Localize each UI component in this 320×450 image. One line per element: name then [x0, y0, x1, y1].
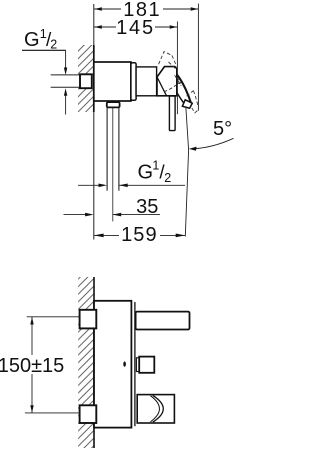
svg-text:2: 2: [50, 37, 57, 51]
svg-text:G: G: [24, 29, 40, 51]
svg-text:145: 145: [116, 17, 155, 39]
svg-text:159: 159: [121, 224, 158, 246]
svg-text:1: 1: [152, 158, 159, 172]
svg-text:G: G: [138, 161, 154, 183]
svg-text:5°: 5°: [213, 118, 232, 140]
svg-text:150±15: 150±15: [0, 355, 64, 377]
svg-text:2: 2: [164, 171, 171, 185]
svg-text:35: 35: [136, 196, 158, 218]
